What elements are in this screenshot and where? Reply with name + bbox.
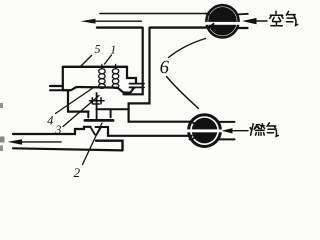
gas supply arrow: [222, 128, 249, 133]
gas valve inlet flare top: [190, 122, 197, 125]
spring left: [99, 64, 105, 88]
leader line label 5: [81, 56, 92, 67]
gas outlet pipe bottom line: [13, 148, 123, 150]
leader line label 1: [105, 55, 112, 64]
air supply arrow: [242, 18, 267, 24]
valve body right wall with step: [127, 67, 136, 84]
gas inlet pipe bottom line: [108, 127, 192, 136]
air valve inlet flare top: [206, 14, 214, 18]
wire: air valve right stub bottom: [238, 27, 248, 29]
label 2: [74, 168, 80, 177]
air flow arrow (left): [81, 19, 142, 24]
valve stem 2: [96, 93, 98, 120]
outlet seat ledge right: [96, 126, 109, 128]
gas outlet flow arrow: [8, 139, 62, 145]
leader line label 3: [63, 96, 99, 127]
wire: gas valve right stub top: [218, 121, 235, 123]
gas outlet pipe top line with step: [13, 127, 91, 134]
outlet funnel right slant: [97, 127, 102, 134]
wire: impulse pipe left (inner) wall: [124, 28, 143, 95]
wire: impulse pipe right (outer) wall: [129, 28, 150, 122]
air valve inlet flare bottom: [206, 24, 214, 28]
stem connector: [90, 98, 105, 104]
wire: air outlet pipe top line: [100, 13, 208, 15]
label 空气 (air) hand-drawn glyphs: [270, 11, 298, 25]
label 4: [47, 116, 53, 124]
valve seat right wall: [110, 109, 112, 117]
scan artifacts left edge: [0, 103, 5, 151]
label 燃气 (gas) hand-drawn glyphs: [250, 123, 278, 137]
leader line label 2: [83, 123, 103, 165]
gas valve inlet flare bottom: [190, 136, 197, 139]
leader line label 4: [56, 88, 94, 114]
leader line label 6 to gas valve: [167, 77, 199, 109]
outlet nipple to impulse pipe: [130, 84, 145, 88]
label 1: [111, 46, 115, 54]
gas inlet pipe top line: [129, 121, 191, 123]
wire: air outlet pipe bottom line left segment: [97, 26, 142, 28]
valve 6: gas butterfly valve: [187, 115, 223, 147]
lower chamber bottom ledge: [68, 110, 89, 112]
valve body left wall: [62, 67, 64, 90]
label 6: [160, 61, 168, 73]
wire: air outlet pipe bottom line right segment: [150, 26, 209, 28]
vent stub left top line: [50, 85, 63, 87]
wire: gas valve right stub bottom: [218, 138, 235, 140]
wire: air valve right stub top: [239, 13, 248, 16]
vent stub left bottom line: [50, 89, 70, 91]
stem crossbar: [93, 103, 99, 105]
diaphragm: [63, 87, 135, 93]
lower valve disc: [85, 119, 113, 122]
lower chamber step down: [87, 112, 89, 118]
valve guide line right of stem: [97, 108, 129, 110]
label 3: [55, 126, 61, 134]
label 5: [95, 45, 100, 53]
valve 6: air butterfly valve: [205, 5, 242, 37]
valve body top cover plate: [63, 66, 127, 68]
spring right: [112, 64, 118, 88]
chamber bottom wall: [96, 141, 123, 151]
leader line label 6 to air valve: [169, 39, 206, 58]
outlet funnel left slant: [91, 127, 96, 134]
lower chamber left wall: [67, 91, 69, 112]
